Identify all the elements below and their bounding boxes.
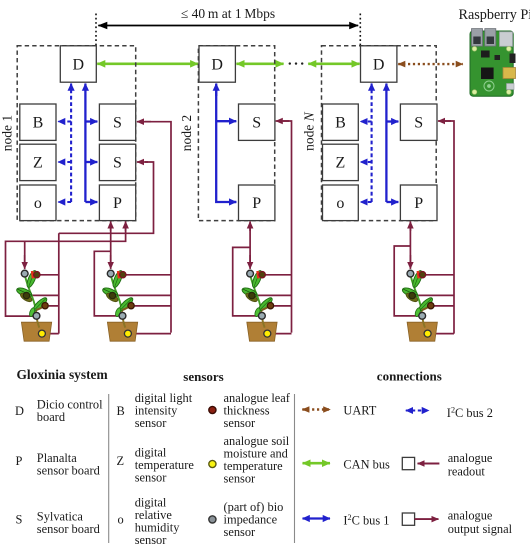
node N border xyxy=(322,46,437,221)
box S nodeN xyxy=(400,104,437,140)
svg-text:CAN bus: CAN bus xyxy=(343,458,390,472)
measurement arrow xyxy=(98,25,358,27)
I2C bus 1 symbol xyxy=(303,517,331,519)
svg-text:o: o xyxy=(118,513,124,527)
legend divider 2 xyxy=(294,394,296,543)
svg-text:node 1: node 1 xyxy=(0,115,15,151)
plant4 readout riser to S nodeN xyxy=(415,121,454,334)
box B node1 xyxy=(20,104,56,140)
svg-text:board: board xyxy=(37,410,66,424)
svg-text:sensor board: sensor board xyxy=(37,463,101,477)
box Z nodeN xyxy=(323,144,359,180)
plant4 bio net nodeN P xyxy=(394,229,419,316)
plant 4 xyxy=(401,269,437,341)
I2C bus 2 wire node1 (dashed blue) xyxy=(70,84,72,203)
ethernet xyxy=(500,32,513,47)
svg-text:D: D xyxy=(15,404,24,418)
svg-text:analogue: analogue xyxy=(448,508,493,522)
svg-text:D: D xyxy=(73,57,85,74)
chips xyxy=(481,51,490,58)
plant2 readout riser to S1 xyxy=(115,122,171,334)
I2C bus 2 wire nodeN (dashed blue) xyxy=(371,84,373,203)
I2C bus 2 symbol xyxy=(406,409,429,411)
plant1 bio net: P right arrow down to y241 across to left detour xyxy=(6,229,126,317)
svg-text:UART: UART xyxy=(343,404,376,418)
svg-text:P: P xyxy=(16,454,23,468)
svg-text:sensors: sensors xyxy=(183,369,223,384)
svg-text:Z: Z xyxy=(336,155,346,172)
CAN bus D2-dots xyxy=(236,62,283,65)
gold connector xyxy=(503,68,516,79)
svg-text:sensor board: sensor board xyxy=(37,522,101,536)
node 1 border xyxy=(17,46,136,221)
box S1 node1 xyxy=(99,104,135,140)
svg-text:I2C bus 1: I2C bus 1 xyxy=(343,513,389,528)
leaf thickness dot xyxy=(209,406,216,413)
svg-text:D: D xyxy=(373,57,385,74)
box D node2 xyxy=(199,46,235,82)
svg-text:node 2: node 2 xyxy=(179,115,194,151)
svg-text:sensor: sensor xyxy=(224,525,257,539)
svg-text:S: S xyxy=(113,155,122,172)
svg-text:I2C bus 2: I2C bus 2 xyxy=(447,405,493,420)
box D nodeN xyxy=(361,46,397,82)
UART symbol xyxy=(302,408,330,410)
svg-text:o: o xyxy=(336,195,344,212)
plant1 stimulus down arrow xyxy=(24,241,26,262)
legend divider 1 xyxy=(108,394,110,543)
UART dotted link DN-RPi xyxy=(398,63,463,65)
box D node1 xyxy=(60,46,96,82)
plant 2 xyxy=(101,269,137,341)
svg-text:B: B xyxy=(33,115,44,132)
svg-text:node N: node N xyxy=(302,111,317,151)
svg-text:o: o xyxy=(34,195,42,212)
node 2 border xyxy=(198,46,274,221)
svg-text:P: P xyxy=(252,195,261,212)
I2C bus 1 wire nodeN (solid blue) xyxy=(385,84,387,203)
svg-text:≤ 40 m at 1 Mbps: ≤ 40 m at 1 Mbps xyxy=(181,6,275,21)
analogue output signal symbol xyxy=(402,513,414,525)
svg-text:output signal: output signal xyxy=(448,522,513,536)
I2C bus 1 wire node1 (solid blue) xyxy=(84,84,86,203)
box P node2 xyxy=(239,185,275,221)
svg-text:sensor: sensor xyxy=(224,472,257,486)
plant1 readout riser xyxy=(26,233,59,333)
svg-text:S: S xyxy=(414,115,423,132)
I2C bus 1 wire node2 xyxy=(216,89,236,202)
analogue readout symbol xyxy=(402,457,414,469)
svg-text:analogue: analogue xyxy=(448,451,493,465)
mount holes xyxy=(472,47,477,52)
usb connectors xyxy=(472,29,483,46)
soil moisture dot xyxy=(209,460,216,467)
svg-text:sensor: sensor xyxy=(224,416,257,430)
svg-text:sensor: sensor xyxy=(135,533,168,547)
svg-text:connections: connections xyxy=(377,369,442,384)
svg-text:B: B xyxy=(335,115,346,132)
dotted extent line left xyxy=(95,14,97,47)
CAN bus dots-DN xyxy=(308,62,359,65)
pcb xyxy=(470,31,513,96)
svg-text:Z: Z xyxy=(33,155,43,172)
svg-text:sensor: sensor xyxy=(135,470,168,484)
plant2 bio net from P left arrow xyxy=(94,229,119,316)
plant3 bio net node2 P xyxy=(233,229,259,316)
box S node2 xyxy=(239,104,275,140)
svg-text:P: P xyxy=(113,195,122,212)
box o node1 xyxy=(20,185,56,221)
svg-text:S: S xyxy=(252,115,261,132)
svg-text:Z: Z xyxy=(117,454,125,468)
box Z node1 xyxy=(20,144,56,180)
rpi logo xyxy=(484,81,494,91)
CAN bus D1-D2 xyxy=(97,62,198,65)
svg-text:Raspberry Pi: Raspberry Pi xyxy=(459,7,530,23)
bio impedance dot xyxy=(209,516,216,523)
plant3 readout riser to S node2 xyxy=(255,121,292,334)
svg-text:B: B xyxy=(117,404,125,418)
svg-text:P: P xyxy=(414,195,423,212)
box o nodeN xyxy=(323,185,359,221)
CAN bus symbol xyxy=(303,462,331,465)
plant 3 xyxy=(241,269,277,341)
svg-text:S: S xyxy=(113,115,122,132)
svg-text:readout: readout xyxy=(448,465,486,479)
plant1 to S2 link xyxy=(59,162,154,233)
box S2 node1 xyxy=(99,144,135,180)
svg-text:S: S xyxy=(16,513,23,527)
box B nodeN xyxy=(323,104,359,140)
ellipsis dots xyxy=(289,62,291,64)
svg-text:Gloxinia system: Gloxinia system xyxy=(17,367,108,382)
svg-text:D: D xyxy=(211,57,223,74)
dotted extent line right xyxy=(359,14,361,47)
plant 1 xyxy=(15,269,51,341)
svg-text:sensor: sensor xyxy=(135,416,168,430)
box P nodeN xyxy=(400,185,437,221)
box P node1 xyxy=(99,185,135,221)
